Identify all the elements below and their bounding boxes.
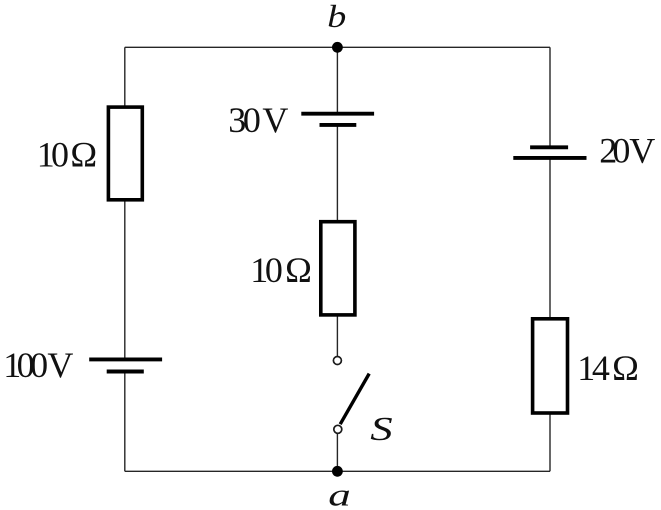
svg-text:14 Ω: 14 Ω: [577, 348, 639, 388]
svg-text:20 V: 20 V: [599, 131, 655, 171]
svg-text:10 Ω: 10 Ω: [37, 134, 97, 174]
svg-text:S: S: [370, 410, 393, 448]
svg-text:10 Ω: 10 Ω: [250, 250, 312, 290]
svg-text:30 V: 30 V: [228, 100, 288, 140]
svg-text:a: a: [328, 478, 351, 510]
svg-text:100 V: 100 V: [3, 345, 73, 385]
svg-text:b: b: [327, 0, 346, 34]
